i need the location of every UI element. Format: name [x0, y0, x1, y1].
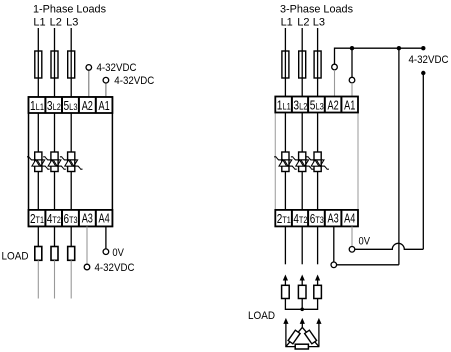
terminal circle 0V (A4) — [103, 249, 109, 255]
wire load3 tail — [70, 260, 72, 298]
fuse F3 (L3) — [68, 51, 75, 78]
delta load resistor R8 (right side) — [305, 330, 317, 344]
wire rail1 DC+ — [398, 48, 400, 265]
U2 body side left (gray) — [274, 113, 276, 210]
wire A4 down (U2) — [351, 226, 353, 246]
wire 6T3 down (U2) — [317, 226, 319, 264]
wire load1 tail — [37, 260, 39, 298]
svg-text:L2: L2 — [50, 17, 62, 29]
triac/varistor Q3 — [60, 152, 83, 172]
triac/varistor Q4 — [274, 152, 297, 172]
wire pole3 through body (U2) — [317, 113, 319, 210]
wire 4T2 down (U2) — [301, 226, 303, 264]
fuse F6 (L3) — [314, 51, 321, 78]
SSR contactor body U1 — [29, 97, 113, 226]
triac/varistor Q6 — [306, 152, 329, 172]
wire DC+ rail top — [335, 48, 424, 67]
fuse F4 (L1) — [282, 51, 289, 78]
wire A1 below circle — [351, 83, 353, 97]
fuse F1 (L1) — [35, 51, 42, 78]
terminal circle 0V (U2) — [349, 247, 355, 253]
wire load2 tail — [54, 260, 56, 298]
wire A3 circle to rail1 — [337, 264, 399, 266]
triac/varistor Q1 — [27, 152, 50, 172]
arrow to delta node 1 — [283, 318, 288, 324]
svg-text:A1: A1 — [99, 98, 110, 113]
svg-text:A2: A2 — [82, 98, 93, 113]
star load resistor R5 — [298, 285, 306, 298]
arrow to star load 2 — [300, 275, 305, 281]
terminal circle 4-32VDC (A2) — [86, 65, 92, 71]
wire L2 supply — [54, 28, 56, 97]
wire A1 control — [105, 83, 107, 97]
U1 bottom terminal row — [29, 210, 113, 227]
arrow to star load 1 — [283, 275, 288, 281]
delta arrow1 shaft — [285, 323, 287, 347]
wire R5 to star point — [301, 299, 303, 310]
junction rail1/rail — [397, 46, 401, 50]
arrow to delta node 3 — [316, 318, 321, 324]
svg-text:A1: A1 — [344, 98, 355, 113]
junction rail end (DC+) — [421, 46, 425, 50]
svg-text:LOAD: LOAD — [248, 310, 275, 322]
load resistor R2 — [51, 247, 58, 261]
arrow to delta node 2 — [300, 318, 305, 324]
wire pole2 through body (U2) — [301, 113, 303, 210]
terminal circle A1 (right) — [349, 77, 355, 83]
fuse F5 (L2) — [299, 51, 306, 78]
U2 top terminal row — [275, 97, 358, 113]
delta arrow2 shaft — [301, 323, 303, 328]
svg-text:L2: L2 — [297, 17, 309, 29]
junction star point — [300, 308, 304, 312]
wire L3 supply — [70, 28, 72, 97]
wire A4 to 0V — [105, 226, 107, 249]
junction A1/rail — [350, 46, 354, 50]
svg-text:L1: L1 — [281, 17, 293, 29]
wire pole1 through body (U2) — [284, 113, 286, 210]
svg-text:0V: 0V — [112, 247, 124, 259]
svg-text:4-32VDC: 4-32VDC — [409, 54, 449, 66]
fuse F2 (L2) — [51, 51, 58, 78]
wire pole3 through body — [70, 113, 72, 209]
wire L2 supply (right) — [301, 28, 303, 97]
star load resistor R6 — [314, 285, 322, 298]
terminal circle 4-32VDC (A1) — [103, 77, 109, 83]
arrow1 shaft — [284, 280, 286, 286]
wire star neutral bus — [285, 299, 317, 310]
svg-text:A4: A4 — [344, 210, 355, 225]
wire 2T1 down (U2) — [284, 226, 286, 264]
svg-text:0V: 0V — [359, 236, 371, 248]
delta load resistor R7 (left side) — [288, 330, 300, 344]
wire delta triangle sides — [286, 327, 319, 346]
svg-text:4-32VDC: 4-32VDC — [114, 75, 154, 87]
wire L1 supply (right) — [284, 28, 286, 97]
wire L1 supply — [37, 28, 39, 97]
junction DC- below label — [421, 71, 425, 75]
svg-text:LOAD: LOAD — [2, 250, 29, 262]
delta arrow3 shaft — [318, 323, 320, 347]
U1 top terminal row — [29, 97, 113, 113]
arrow to star load 3 — [315, 275, 320, 281]
svg-text:A2: A2 — [328, 98, 339, 113]
triac/varistor Q5 — [291, 152, 314, 172]
wire 6T3 to load — [70, 226, 72, 246]
triac/varistor Q2 — [43, 152, 66, 172]
wire 2T1 to load — [37, 226, 39, 246]
U2 bottom terminal row — [275, 210, 358, 227]
svg-text:A4: A4 — [99, 210, 110, 225]
terminal circle A2 (right) — [332, 64, 338, 70]
wire 4T2 to load — [54, 226, 56, 246]
svg-text:A3: A3 — [328, 210, 339, 225]
wire pole2 through body — [54, 113, 56, 209]
delta load resistor R9 (bottom) — [295, 344, 308, 349]
wire A2 control — [88, 70, 90, 97]
wire delta triangle bottom — [285, 346, 319, 348]
arrow2 shaft — [301, 280, 303, 286]
terminal circle 4-32VDC (A3) — [84, 264, 90, 270]
svg-text:L3: L3 — [66, 17, 78, 29]
wire A1 to rail — [351, 48, 353, 77]
svg-text:L3: L3 — [313, 17, 325, 29]
svg-text:1-Phase Loads: 1-Phase Loads — [33, 4, 106, 16]
svg-text:L1: L1 — [33, 17, 45, 29]
svg-text:A3: A3 — [82, 210, 93, 225]
arrow3 shaft — [317, 280, 319, 286]
star load resistor R4 — [282, 285, 290, 298]
terminal circle A3 (U2) — [331, 262, 337, 268]
svg-text:4-32VDC: 4-32VDC — [97, 62, 137, 74]
wire A3 control — [86, 226, 88, 264]
wire rail2 DC- — [422, 73, 424, 249]
load resistor R3 — [68, 247, 75, 261]
U2 body side right (gray) — [357, 113, 359, 210]
wire L3 supply (right) — [317, 28, 319, 97]
svg-text:3-Phase Loads: 3-Phase Loads — [280, 4, 353, 16]
svg-text:4-32VDC: 4-32VDC — [95, 262, 135, 274]
load resistor R1 — [35, 247, 42, 261]
wire pole1 through body — [37, 113, 39, 209]
wire A2 below circle — [334, 70, 336, 97]
wire A3 down (U2) — [333, 226, 335, 262]
wire 0V to rail2 with hop over rail1 — [355, 243, 424, 249]
